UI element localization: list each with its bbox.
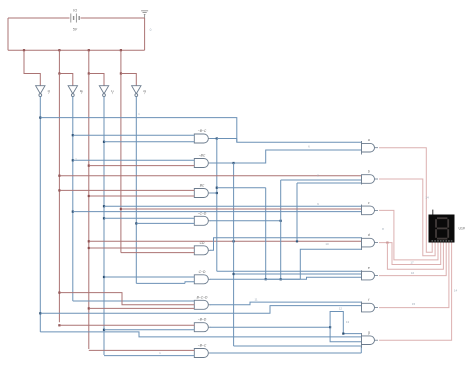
wire notC to G1 in2 — [104, 141, 194, 143]
wire C to G5 in1 — [89, 247, 195, 249]
wire tap 2 down — [58, 50, 60, 73]
junction C G7 — [88, 307, 90, 309]
AND gate G9 — [194, 349, 208, 358]
wire segment g to display pin8 — [379, 243, 452, 341]
junction bus tap 2 — [58, 49, 60, 51]
junction notC to OR c — [103, 205, 105, 207]
AND gate G8 — [194, 323, 208, 332]
wire G2 to OR a in3 — [234, 150, 362, 163]
wire notA to OR g in1 — [40, 332, 361, 337]
wire battery top right — [81, 17, 145, 19]
junction G3 out joins — [216, 192, 218, 194]
ground — [141, 11, 148, 15]
wire to OR e in1 — [217, 270, 362, 272]
wire notC to OR c in1 — [104, 205, 362, 207]
junction bus tap 4 — [120, 49, 122, 51]
inverter U2 — [36, 86, 45, 94]
junction notC G1 — [103, 141, 105, 143]
wire C to G9 in1 — [89, 349, 195, 351]
svg-text:~D: ~D — [143, 89, 147, 94]
wire B vertical — [58, 74, 60, 323]
wire branch to inverter 2 — [59, 74, 72, 86]
svg-text:g: g — [368, 331, 370, 335]
wire D to OR c in2 — [121, 208, 362, 210]
wire notD to G6 in2 — [136, 282, 185, 284]
svg-text:~C: ~C — [111, 89, 115, 94]
wire notC vertical — [103, 97, 105, 356]
junction G8 out — [329, 326, 331, 328]
junction notB G1 — [72, 134, 74, 136]
wire branch right — [217, 187, 266, 189]
wire G1 output — [210, 138, 217, 140]
junction G1 out — [216, 137, 218, 139]
wire C to G3 in2 — [89, 195, 195, 197]
wire notC to G9 in2 — [104, 355, 194, 357]
svg-text:b: b — [368, 170, 370, 174]
wire G4 output — [210, 220, 281, 222]
wire C vertical — [88, 74, 90, 350]
wire notC to G4 in1 — [104, 217, 194, 219]
wire to OR e in3 — [266, 277, 362, 279]
svg-text:~B~C: ~B~C — [198, 344, 207, 348]
junction B G3 — [58, 189, 60, 191]
wire C to OR d in2 — [89, 240, 362, 242]
wire G2 net down — [233, 163, 235, 346]
wire G2 output — [210, 162, 234, 164]
wire battery loop left side — [7, 18, 9, 50]
svg-text:16: 16 — [411, 271, 415, 275]
wire notD to G4 in2 — [136, 222, 194, 224]
wire notC to G8 in2 — [104, 329, 194, 331]
AND gate G5 — [194, 246, 208, 255]
junction C G2 — [88, 165, 90, 167]
wire to OR b in2 — [281, 179, 362, 181]
svg-text:B~C~D: B~C~D — [197, 295, 208, 299]
junction G2 out — [233, 162, 235, 164]
wire B to G7 in2 — [59, 293, 194, 305]
junction G4 out — [280, 220, 282, 222]
junction OR e branch — [233, 273, 235, 275]
wire branch to inverter 4 — [121, 74, 136, 86]
wire notA to OR f in2 — [40, 306, 361, 314]
svg-text:~B~C: ~B~C — [198, 129, 207, 133]
junction notC G4 — [103, 217, 105, 219]
svg-text:13: 13 — [346, 320, 350, 324]
junction B long line — [58, 175, 60, 177]
display top pin — [432, 210, 434, 215]
wire G8 output — [210, 326, 330, 328]
wire x297 vertical — [296, 183, 298, 241]
AND gate G6 — [194, 275, 208, 284]
AND gate G1 — [194, 134, 208, 143]
junction notA OR f branch — [39, 312, 41, 314]
junction notB to OR c — [72, 211, 74, 213]
wire G9 to OR g in5 — [360, 347, 362, 353]
junction B G8 — [58, 324, 60, 326]
junction d branch — [386, 242, 388, 244]
wire G8 to OR g in2 — [330, 327, 361, 342]
junction G1 net branch — [216, 187, 218, 189]
svg-text:17: 17 — [410, 261, 414, 265]
wire notD vertical — [135, 97, 137, 284]
wire D vertical — [120, 74, 122, 253]
junction notC G6 — [103, 276, 105, 278]
wire segment f to display pin7 — [379, 243, 449, 308]
wire D to G5 in2 — [121, 252, 194, 254]
wire to OR g in4 — [234, 345, 362, 347]
wire supply bus — [8, 49, 145, 51]
svg-text:14: 14 — [425, 196, 429, 200]
wire B to G3 in1 — [59, 189, 194, 191]
wire notB to G7 in1 — [73, 300, 195, 302]
junction bus tap 1 — [23, 49, 25, 51]
svg-text:15: 15 — [412, 302, 416, 306]
battery V1 — [70, 14, 72, 23]
inverter U5 — [132, 86, 141, 94]
OR gate f — [361, 302, 363, 313]
junction G2 net crossing — [233, 240, 235, 242]
wire notA vertical — [39, 97, 41, 332]
junction C G3 — [88, 195, 90, 197]
junction net d2 — [296, 240, 298, 242]
junction notA top branch — [39, 117, 41, 119]
wire x280 vertical — [280, 180, 282, 279]
svg-text:a: a — [368, 138, 370, 142]
junction C to OR d — [88, 240, 90, 242]
wire segment e to display pin6 — [379, 243, 446, 276]
svg-text:BC: BC — [200, 184, 205, 188]
wire notB to G1 in1 — [73, 134, 195, 136]
wire B to G8 in1 — [59, 324, 194, 326]
wire notB vertical — [72, 97, 74, 302]
wire branch to inverter 3 — [89, 74, 104, 86]
AND gate G2 — [194, 159, 208, 168]
wire segment d to display pin4 — [379, 243, 441, 265]
wire G1 net vertical — [216, 139, 218, 272]
wire d branch to display pin5 — [387, 243, 443, 270]
wire segment a to display pin1 — [379, 148, 432, 253]
wire C to G2 in2 — [89, 165, 195, 167]
wire notB to OR c in3 — [73, 211, 362, 213]
wire notB to G2 in1 — [73, 159, 195, 161]
junction notD G4 — [135, 222, 137, 224]
wire G3 output — [210, 192, 217, 194]
svg-text:~BC: ~BC — [199, 154, 206, 158]
svg-text:~B~D: ~B~D — [198, 318, 207, 322]
junction B G7 — [58, 292, 60, 294]
svg-text:U1#: U1# — [459, 227, 465, 231]
wire segment b to display pin2 — [379, 179, 435, 256]
wire tap 3 down — [88, 50, 90, 73]
OR gate a — [361, 141, 363, 155]
inverter U3 — [68, 86, 77, 94]
AND gate G3 — [194, 189, 208, 198]
wire down x265 — [265, 188, 267, 280]
svg-text:10: 10 — [325, 242, 329, 246]
svg-text:11: 11 — [254, 298, 257, 302]
wire battery loop right side — [144, 18, 146, 50]
svg-text:0: 0 — [150, 28, 152, 32]
wire G6 to OR d in3 — [300, 249, 361, 279]
wire to OR e in2 — [234, 273, 362, 275]
OR gate d — [361, 237, 363, 250]
svg-text:C~D: C~D — [199, 270, 206, 274]
wire B to OR b in1 — [59, 175, 361, 177]
wire G7 output to OR f in1 — [210, 302, 362, 305]
OR gate e — [361, 270, 363, 278]
AND gate G7 — [194, 300, 208, 309]
wire battery top left — [8, 17, 70, 19]
wire tap1 to inverter 1 — [24, 50, 40, 85]
wire C to G7 in3 — [89, 307, 195, 309]
7-segment display U1 — [429, 215, 455, 243]
OR gate b — [361, 175, 363, 185]
svg-text:V1: V1 — [73, 9, 77, 13]
junction D to OR c — [120, 208, 122, 210]
wire segment c to display pin3 — [379, 210, 438, 260]
svg-text:e: e — [368, 266, 370, 270]
wire G5 output to OR d in1 — [210, 238, 362, 251]
junction notB G2 — [72, 159, 74, 161]
inverter U4 — [99, 86, 108, 94]
wire G6 output — [210, 278, 300, 280]
OR gate c — [361, 205, 363, 214]
svg-text:5V: 5V — [73, 28, 78, 32]
junction C G5 — [88, 247, 90, 249]
wire notA to OR a in1 — [40, 118, 361, 143]
wire tap 4 down — [120, 50, 122, 73]
wire to OR b in3 — [297, 182, 362, 184]
wire G9 output — [210, 352, 361, 354]
svg-text:12: 12 — [339, 307, 343, 311]
svg-text:14: 14 — [454, 289, 458, 293]
svg-text:d: d — [368, 233, 370, 237]
wire notC to G6 in1 — [104, 276, 194, 278]
junction bus tap 3 — [88, 49, 90, 51]
junction notC G8 — [103, 329, 105, 331]
OR gate g — [361, 333, 363, 348]
wire G8 to OR g upper path — [330, 312, 361, 334]
AND gate G4 — [194, 216, 208, 225]
